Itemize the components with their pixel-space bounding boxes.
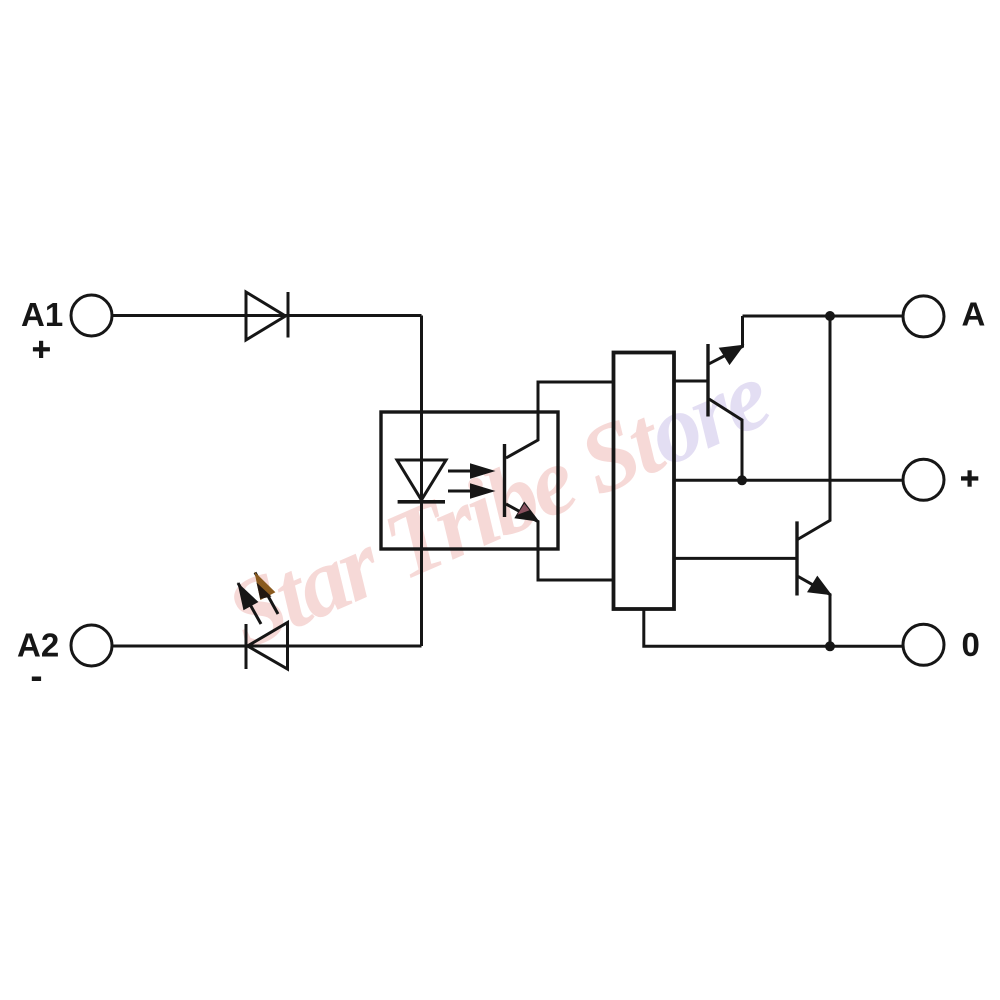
terminal + (903, 459, 944, 500)
terminal 0 (903, 624, 944, 665)
wire + rail (674, 479, 903, 482)
svg-text:A1: A1 (21, 296, 63, 333)
opto light arrow 1 (448, 463, 496, 479)
junction dot A rail (825, 311, 835, 321)
opto LED (397, 460, 446, 502)
wire vertical left bus (420, 316, 423, 647)
wire driver bottom to 0 rail (644, 609, 903, 646)
wire A2 rail (112, 645, 422, 648)
LED D2 emission arrow right (brown) (254, 572, 278, 614)
transistor Q2 (797, 521, 832, 646)
opto phototransistor (505, 412, 540, 549)
driver block U2 (614, 353, 675, 610)
svg-text:Star Tribe Store: Star Tribe Store (211, 341, 783, 669)
terminal A (903, 296, 944, 337)
LED D2 emission arrow left (237, 582, 261, 624)
opto light arrow 2 (448, 483, 496, 499)
wire driver to Q2 base (674, 557, 797, 560)
wire opto emitter to driver (538, 549, 614, 580)
label + right (961, 470, 978, 486)
junction dot + rail (737, 475, 747, 485)
svg-text:0: 0 (962, 626, 980, 663)
watermark (211, 341, 783, 669)
LED D2 indicator (246, 623, 288, 670)
svg-text:A2: A2 (17, 626, 59, 663)
terminal A1 (71, 295, 112, 336)
diode D1 (246, 292, 288, 340)
wire A rail (743, 315, 903, 318)
transistor Q1 (708, 316, 745, 480)
wire opto collector to driver (538, 382, 614, 412)
terminal A2 (71, 625, 112, 666)
optocoupler U1 box (381, 412, 558, 549)
wire driver to Q1 base (674, 380, 708, 383)
wire Q2 collector riser (798, 316, 831, 540)
svg-text:A: A (962, 296, 986, 333)
wire A1 to corner (112, 314, 422, 317)
junction dot 0 rail (825, 641, 835, 651)
label - left (32, 677, 41, 682)
label + left (33, 341, 50, 358)
